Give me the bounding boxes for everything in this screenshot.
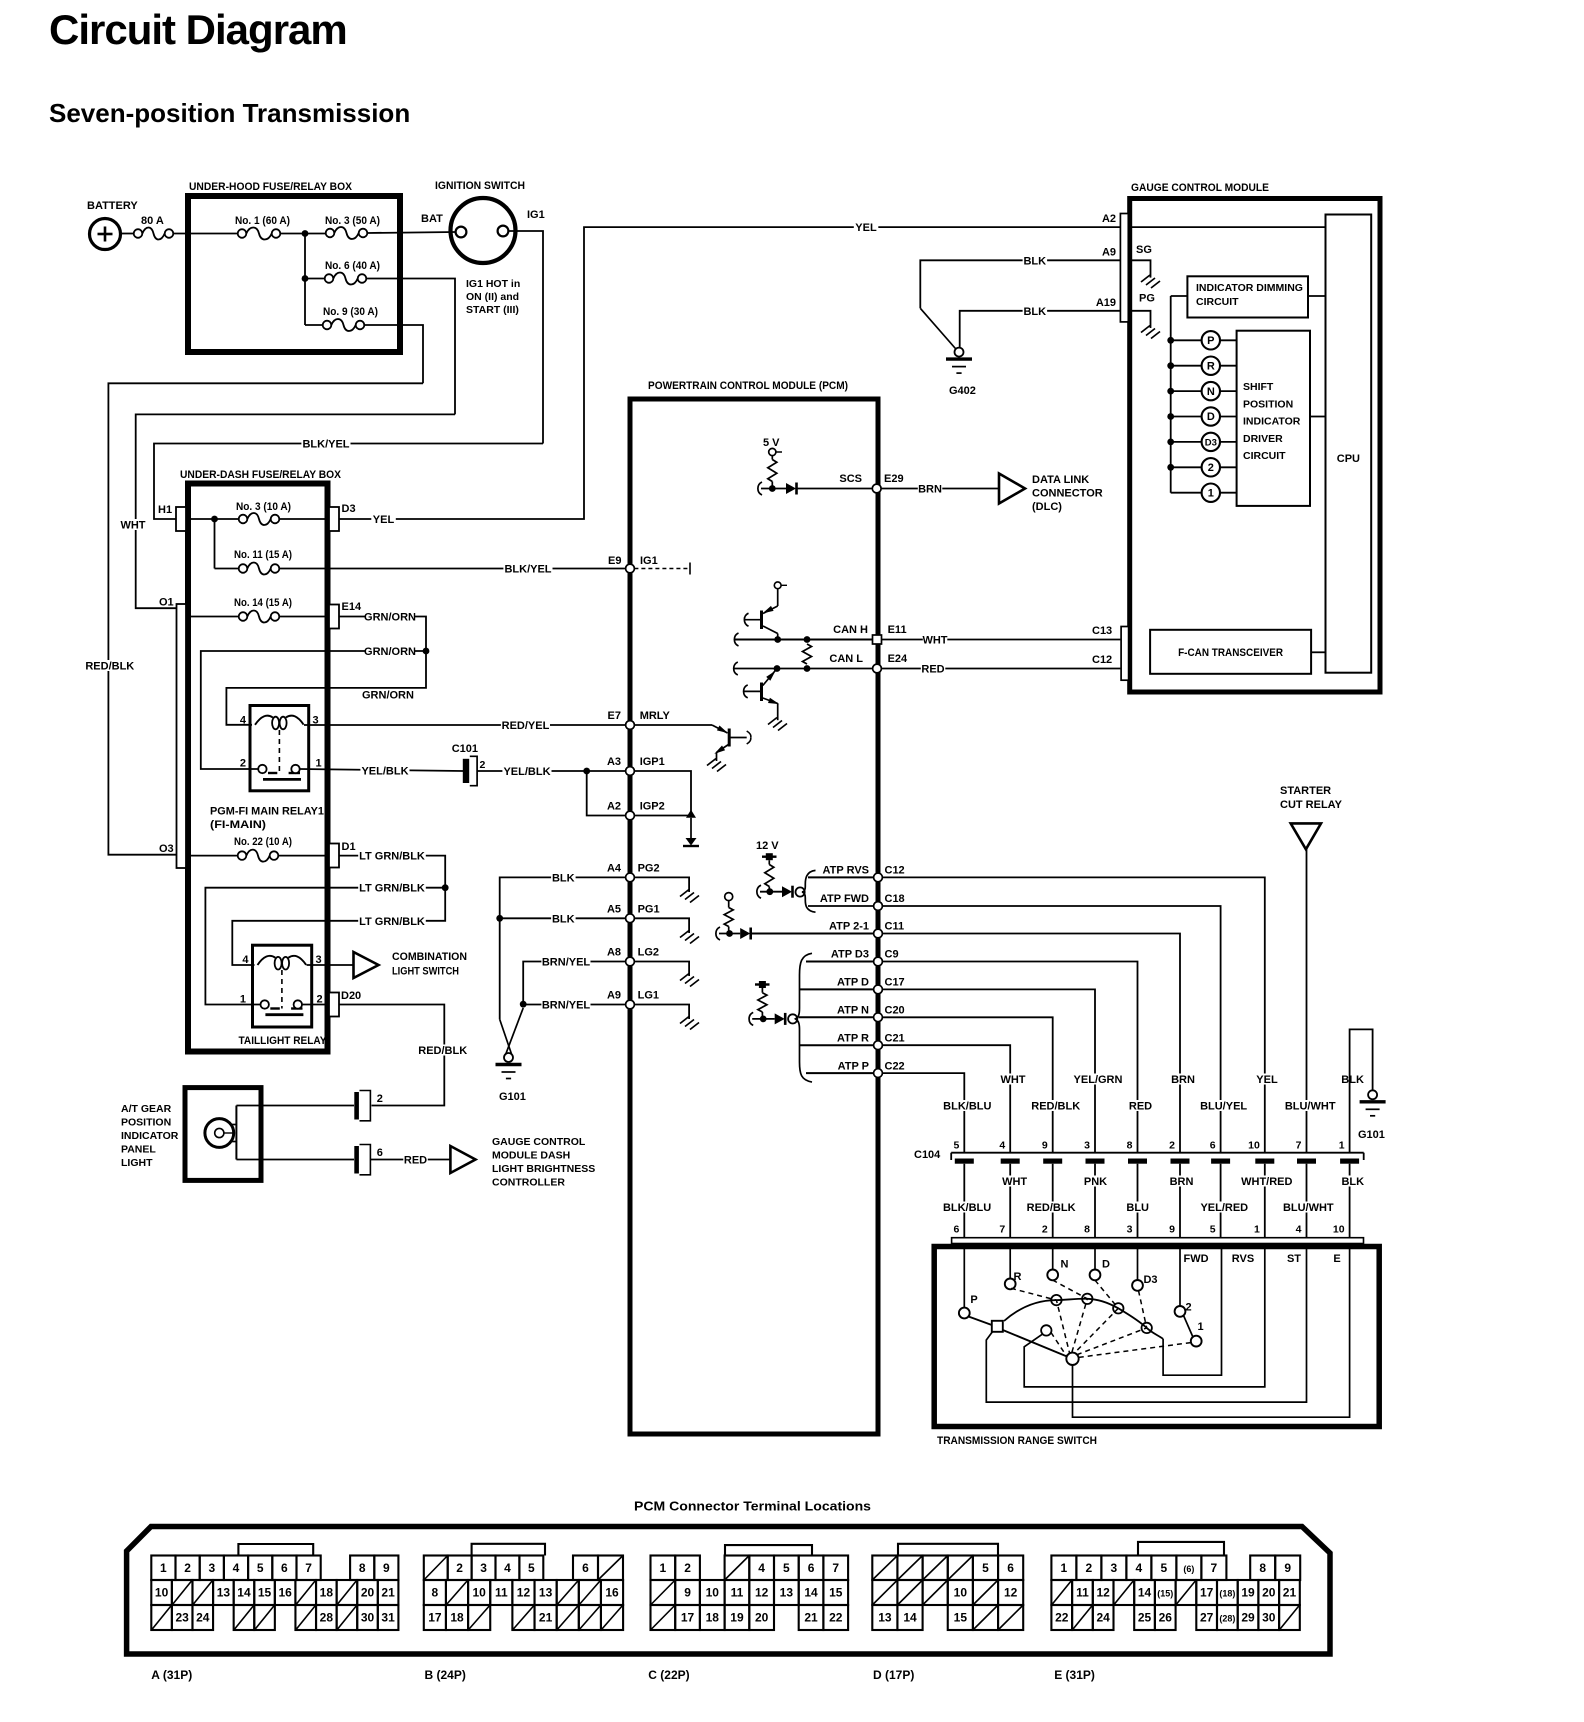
- pcm pin C22: [874, 1069, 883, 1078]
- wire BLK/YEL fuse No.11 to E9: [279, 568, 627, 570]
- connector B row1 cell 4: [519, 1556, 543, 1581]
- connector pin E14: [329, 605, 339, 629]
- svg-text:15: 15: [829, 1586, 843, 1600]
- wire battery to 80A fuse: [121, 233, 134, 235]
- connector B row2 cell 5: [535, 1580, 557, 1605]
- svg-text:2: 2: [480, 759, 486, 771]
- svg-text:E: E: [1333, 1253, 1340, 1265]
- wire IGP2 internal: [634, 815, 691, 817]
- svg-text:22: 22: [1055, 1611, 1069, 1625]
- svg-text:No. 3 (10 A): No. 3 (10 A): [236, 501, 291, 513]
- pcm pin C9: [874, 957, 883, 966]
- svg-text:LIGHT: LIGHT: [121, 1157, 153, 1169]
- svg-text:ST: ST: [1287, 1253, 1301, 1265]
- svg-text:16: 16: [278, 1586, 292, 1600]
- svg-text:9: 9: [684, 1586, 691, 1600]
- fuse No. 3 (10 A): [239, 515, 248, 524]
- connector C row1 cell 4: [749, 1556, 774, 1581]
- svg-text:BATTERY: BATTERY: [87, 200, 138, 212]
- connector A row3 cell 11: [378, 1605, 399, 1630]
- label BRN/YEL A8: [541, 956, 590, 967]
- terminal circle ATP D3: [788, 1014, 797, 1023]
- svg-text:No. 6 (40 A): No. 6 (40 A): [325, 260, 380, 272]
- svg-text:8: 8: [359, 1561, 366, 1575]
- C104 pin 2 terminal: [1171, 1159, 1190, 1164]
- connector A row1 cell 9: [374, 1556, 398, 1581]
- connector A row3 cell 7: [295, 1605, 316, 1630]
- svg-text:C20: C20: [885, 1005, 905, 1017]
- svg-text:YEL: YEL: [1256, 1074, 1278, 1086]
- node ATP RVS junction: [766, 888, 773, 895]
- symbol data link connector triangle: [999, 474, 1025, 504]
- svg-text:IGP1: IGP1: [640, 756, 665, 768]
- connector C row3 cell 6: [799, 1605, 824, 1630]
- connector A row1 cell 6: [272, 1556, 296, 1581]
- terminal circle ATP 2-1 supply: [725, 893, 733, 901]
- wire C22/ATP P to C104: [883, 1073, 965, 1153]
- svg-text:ATP RVS: ATP RVS: [823, 865, 869, 877]
- connector E row3 cell 2: [1093, 1605, 1114, 1630]
- svg-text:C13: C13: [1092, 625, 1112, 637]
- svg-text:3: 3: [1111, 1561, 1118, 1575]
- svg-text:1: 1: [1061, 1561, 1068, 1575]
- symbol starter cut relay triangle: [1291, 823, 1321, 849]
- svg-text:7: 7: [305, 1561, 312, 1575]
- svg-text:LG1: LG1: [638, 990, 659, 1002]
- wire indicator N right: [1220, 390, 1237, 392]
- ground G101 right: [1368, 1090, 1377, 1099]
- ground G101 left: [504, 1053, 513, 1062]
- svg-text:E24: E24: [888, 653, 908, 665]
- connector A row1 cell 5: [248, 1556, 272, 1581]
- wire C104 to TRS pin 8: [1094, 1164, 1096, 1238]
- wire A2 to CPU: [1128, 226, 1325, 228]
- inner contact D3: [1142, 1323, 1152, 1333]
- svg-text:RED/BLK: RED/BLK: [85, 660, 134, 672]
- svg-text:COMBINATION: COMBINATION: [392, 951, 467, 963]
- wire WHT vertical to O1: [136, 414, 455, 608]
- label BLK/YEL to E9: [503, 563, 552, 574]
- svg-text:CAN H: CAN H: [833, 624, 868, 636]
- wire C104 to TRS pin 2: [1052, 1164, 1054, 1238]
- connector A row2 cell 4: [234, 1580, 255, 1605]
- svg-text:1: 1: [160, 1561, 167, 1575]
- wire C18/ATP FWD to C104: [883, 906, 1221, 1153]
- svg-text:No. 11 (15 A): No. 11 (15 A): [234, 549, 292, 561]
- connector A row2 cell 10: [357, 1580, 378, 1605]
- svg-text:D: D: [1207, 411, 1215, 423]
- svg-text:UNDER-DASH FUSE/RELAY BOX: UNDER-DASH FUSE/RELAY BOX: [180, 469, 342, 481]
- pcm pin E24: [873, 664, 882, 673]
- connector E row1 cell 2: [1101, 1556, 1126, 1581]
- svg-text:1: 1: [1197, 1321, 1203, 1333]
- svg-text:5: 5: [982, 1561, 989, 1575]
- connector C row2 cell 0: [651, 1580, 676, 1605]
- wire ATP RVS to C12: [808, 876, 873, 878]
- svg-text:17: 17: [428, 1611, 442, 1625]
- svg-text:LG2: LG2: [638, 947, 659, 959]
- wire SCS to E29: [797, 488, 874, 490]
- wire TRS pin3 to D3 contact: [1137, 1244, 1139, 1281]
- connector C row1 cell 1: [675, 1556, 700, 1581]
- svg-text:24: 24: [1096, 1611, 1110, 1625]
- svg-text:G402: G402: [949, 385, 976, 397]
- resistor ATP 2-1: [728, 901, 730, 908]
- connector B row2 cell 1: [446, 1580, 468, 1605]
- wire contact 2 to 1: [1184, 1316, 1193, 1337]
- connector B row1 cell slash: [598, 1556, 623, 1581]
- wire fcan to CPU: [1311, 651, 1325, 653]
- wire ATP D3 to C9: [806, 961, 873, 963]
- contact 1: [1191, 1336, 1202, 1347]
- wire indicator 2 left: [1171, 466, 1202, 468]
- svg-text:25: 25: [1138, 1611, 1152, 1625]
- wire CAN H line: [735, 639, 874, 641]
- relay TAILLIGHT RELAY box: [253, 945, 312, 1027]
- wire pin3 to combination light switch: [307, 964, 354, 966]
- wire indicator D right: [1220, 416, 1237, 418]
- svg-text:TAILLIGHT RELAY: TAILLIGHT RELAY: [239, 1035, 328, 1047]
- wire BLK down to G101: [499, 918, 501, 1019]
- connector E row3 cell 8: [1217, 1605, 1238, 1630]
- wire junction to fuse No.9: [305, 324, 323, 326]
- connector B row3 cell 5: [535, 1605, 557, 1630]
- pcm pin A3: [626, 767, 635, 776]
- connector C row3 cell 1: [675, 1605, 700, 1630]
- svg-text:12: 12: [517, 1586, 531, 1600]
- wire GRN/ORN to relay pin 4: [226, 651, 426, 725]
- svg-text:4: 4: [242, 954, 249, 966]
- svg-text:1: 1: [1339, 1140, 1345, 1152]
- node junction at fuse No.3(10A): [211, 516, 218, 523]
- fuse 80 A: [134, 229, 143, 238]
- wire indicator P left: [1171, 339, 1202, 341]
- svg-text:27: 27: [1200, 1611, 1214, 1625]
- connector C row3 cell 7: [823, 1605, 848, 1630]
- label PNK trs: [1083, 1176, 1108, 1187]
- dashed ray D: [1075, 1280, 1119, 1353]
- fuse No. 9 (30 A): [323, 321, 332, 330]
- svg-text:BAT: BAT: [421, 213, 443, 225]
- connector A row1 cell 8: [350, 1556, 374, 1581]
- resistor ATP D3: [761, 988, 763, 993]
- relay PGM-FI MAIN RELAY1 box: [250, 706, 309, 791]
- connector D row3 cell 0: [872, 1605, 897, 1630]
- svg-text:No. 22 (10 A): No. 22 (10 A): [234, 836, 292, 848]
- svg-text:30: 30: [361, 1611, 375, 1625]
- wire fuse No.6 output: [366, 279, 455, 415]
- connector B row3 cell 6: [557, 1605, 579, 1630]
- connector E row3 cell 11: [1279, 1605, 1300, 1630]
- svg-text:RED/YEL: RED/YEL: [502, 720, 550, 732]
- connector E row3 cell 1: [1072, 1605, 1093, 1630]
- svg-text:BRN: BRN: [1171, 1074, 1195, 1086]
- label WHT c104: [1001, 1074, 1026, 1085]
- connector B row3 cell 7: [579, 1605, 601, 1630]
- symbol brightness controller triangle: [450, 1146, 475, 1173]
- connector E row3 cell 10: [1258, 1605, 1279, 1630]
- svg-text:CONTROLLER: CONTROLLER: [492, 1177, 565, 1189]
- connector C101: [463, 759, 469, 783]
- svg-text:C9: C9: [885, 949, 899, 961]
- svg-text:BLK: BLK: [552, 913, 575, 925]
- svg-text:1: 1: [316, 758, 322, 770]
- C104 connector bar: [951, 1152, 1363, 1154]
- connector B row2 cell 2: [468, 1580, 490, 1605]
- node junction YEL/BLK: [583, 768, 590, 775]
- under-hood fuse/relay box: [188, 196, 400, 352]
- svg-text:PG1: PG1: [638, 903, 660, 915]
- connector terminal 2: [354, 1092, 359, 1120]
- svg-text:10: 10: [155, 1586, 169, 1600]
- transistor Q1 CAN H: [760, 611, 763, 630]
- connector E row2 cell 6: [1176, 1580, 1197, 1605]
- svg-text:C17: C17: [885, 977, 905, 989]
- wire indicator 1 left: [1171, 492, 1202, 494]
- svg-text:15: 15: [954, 1611, 968, 1625]
- connector E row2 cell 4: [1134, 1580, 1155, 1605]
- connector D row2 cell 1: [897, 1580, 922, 1605]
- svg-text:PNK: PNK: [1084, 1176, 1107, 1188]
- connector D row2 cell 4: [973, 1580, 998, 1605]
- taillight relay contact pin 1: [261, 1000, 269, 1008]
- connector E row2 cell 3: [1114, 1580, 1135, 1605]
- svg-text:H1: H1: [158, 504, 172, 516]
- indicator circle D3: [1202, 433, 1220, 451]
- wire indicator R left: [1171, 365, 1202, 367]
- connector B row1 cell 1: [448, 1556, 472, 1581]
- svg-text:(28): (28): [1219, 1614, 1235, 1624]
- svg-text:D3: D3: [342, 503, 356, 515]
- wire indicator D left: [1171, 416, 1202, 418]
- svg-text:2: 2: [1042, 1224, 1048, 1236]
- svg-text:5: 5: [257, 1561, 264, 1575]
- connector C row2 cell 4: [749, 1580, 774, 1605]
- svg-text:IG1 HOT in: IG1 HOT in: [466, 278, 520, 290]
- contact R: [1005, 1279, 1016, 1290]
- dashed ray 1: [1079, 1343, 1191, 1358]
- svg-text:BRN: BRN: [918, 483, 942, 495]
- svg-text:INDICATOR: INDICATOR: [121, 1130, 179, 1142]
- svg-text:LT GRN/BLK: LT GRN/BLK: [359, 916, 425, 928]
- svg-text:6: 6: [808, 1561, 815, 1575]
- svg-text:GAUGE CONTROL MODULE: GAUGE CONTROL MODULE: [1131, 182, 1269, 194]
- connector B row1 cell 3: [496, 1556, 520, 1581]
- wire TRS pin7 to R contact: [1009, 1244, 1011, 1279]
- connector A row1 cell 3: [200, 1556, 224, 1581]
- label GRN/ORN 2: [365, 646, 414, 657]
- svg-text:POSITION: POSITION: [121, 1117, 171, 1129]
- svg-text:2: 2: [240, 758, 246, 770]
- label WHT trs: [1002, 1176, 1027, 1187]
- connector E row1 cell 3: [1126, 1556, 1151, 1581]
- svg-text:4: 4: [1136, 1561, 1143, 1575]
- wire pin2 to D20: [302, 1004, 329, 1006]
- connector A row2 cell 5: [254, 1580, 275, 1605]
- connector C row3 cell 0: [651, 1605, 676, 1630]
- connector A row2 cell 8: [316, 1580, 337, 1605]
- svg-text:21: 21: [539, 1611, 553, 1625]
- cpu box: [1326, 215, 1372, 673]
- connector D row2 cell 5: [998, 1580, 1023, 1605]
- wire indicator P right: [1220, 339, 1237, 341]
- svg-text:17: 17: [1200, 1586, 1214, 1600]
- ground hatch PG gauge: [1141, 326, 1150, 333]
- label RED/BLK c104: [1031, 1100, 1080, 1111]
- svg-text:3: 3: [1084, 1140, 1090, 1152]
- wire TRS pin5 FWD route: [1163, 1244, 1221, 1376]
- svg-text:18: 18: [450, 1611, 464, 1625]
- svg-text:2: 2: [684, 1561, 691, 1575]
- svg-text:Seven-position Transmission: Seven-position Transmission: [49, 98, 410, 128]
- svg-text:6: 6: [953, 1224, 959, 1236]
- svg-text:YEL: YEL: [373, 514, 395, 526]
- gauge control module box: [1130, 199, 1380, 693]
- connector B row2 cell 3: [490, 1580, 512, 1605]
- wire PG1 internal ground: [634, 918, 689, 933]
- curl SCS line end: [758, 482, 762, 495]
- connector terminal 6: [354, 1146, 359, 1174]
- connector D row2 cell 2: [923, 1580, 948, 1605]
- wire junction down to No.9: [304, 279, 306, 326]
- svg-text:3: 3: [1127, 1224, 1133, 1236]
- connector A row3 cell 4: [234, 1605, 255, 1630]
- svg-text:2: 2: [1086, 1561, 1093, 1575]
- svg-text:A9: A9: [607, 990, 621, 1002]
- svg-text:O3: O3: [159, 843, 174, 855]
- svg-text:START (III): START (III): [466, 304, 519, 316]
- svg-text:P: P: [970, 1294, 977, 1306]
- connector B bracket: [472, 1544, 545, 1556]
- taillight relay moving contact stubs: [270, 1007, 280, 1009]
- svg-text:E7: E7: [608, 710, 621, 722]
- svg-text:9: 9: [1169, 1224, 1175, 1236]
- wire ATP P to C22: [806, 1072, 873, 1074]
- node CAN L resistor junction: [804, 665, 811, 672]
- svg-text:D (17P): D (17P): [873, 1668, 914, 1682]
- svg-text:IG1: IG1: [640, 555, 658, 567]
- svg-text:LT GRN/BLK: LT GRN/BLK: [359, 851, 425, 863]
- svg-text:(15): (15): [1157, 1589, 1173, 1599]
- wire IG1 stub inside PCM: [634, 568, 690, 570]
- svg-text:11: 11: [1076, 1586, 1089, 1600]
- connector C row1 cell 7: [823, 1556, 848, 1581]
- wire bus to fuse No.22: [186, 855, 238, 857]
- svg-text:D3: D3: [1205, 438, 1217, 449]
- connector B row1 cell 2: [472, 1556, 496, 1581]
- resistor ATP RVS: [768, 860, 770, 864]
- pcm pin A2 IGP2: [626, 811, 635, 820]
- svg-text:LIGHT SWITCH: LIGHT SWITCH: [392, 966, 459, 978]
- svg-text:2: 2: [1185, 1302, 1191, 1314]
- C104 pin 9 terminal: [1043, 1159, 1062, 1164]
- svg-text:80 A: 80 A: [141, 215, 164, 227]
- node BRN/YEL junction: [520, 1001, 527, 1008]
- indicator bus vertical: [1170, 296, 1172, 493]
- svg-text:BLK: BLK: [1023, 306, 1046, 318]
- taillight relay contact bar: [265, 1013, 303, 1016]
- 5V supply: [769, 448, 776, 455]
- wire WHT CAN H to C13: [881, 639, 1120, 641]
- svg-text:10: 10: [706, 1586, 720, 1600]
- wire C9/ATP D3 to C104: [883, 962, 1138, 1153]
- label RED/BLK trs: [1027, 1202, 1076, 1213]
- svg-text:D1: D1: [342, 841, 356, 853]
- connector C row1 cell 0: [651, 1556, 676, 1581]
- bracket ATP D3-P: [796, 953, 813, 1082]
- svg-text:CIRCUIT: CIRCUIT: [1196, 296, 1239, 308]
- curl ATP D3 end: [749, 1012, 753, 1025]
- node indicator bus 2: [1167, 464, 1174, 471]
- svg-text:8: 8: [1259, 1561, 1266, 1575]
- svg-text:(18): (18): [1219, 1589, 1235, 1599]
- connector D row2 cell 3: [948, 1580, 973, 1605]
- svg-text:C101: C101: [452, 743, 478, 755]
- connector E row3 cell 7: [1196, 1605, 1217, 1630]
- svg-text:RED/BLK: RED/BLK: [418, 1045, 467, 1057]
- connector D row3 cell 4: [973, 1605, 998, 1630]
- connector D row1 cell 0: [872, 1556, 897, 1581]
- wire BRN/YEL from A8: [523, 962, 625, 1005]
- wire fuse No.3 to D3 pin: [279, 518, 329, 520]
- connector C row2 cell 2: [700, 1580, 725, 1605]
- connector C row2 cell 5: [774, 1580, 799, 1605]
- svg-text:29: 29: [1241, 1611, 1255, 1625]
- svg-text:BLK/YEL: BLK/YEL: [302, 438, 349, 450]
- svg-text:No. 9 (30 A): No. 9 (30 A): [323, 306, 378, 318]
- svg-text:19: 19: [1241, 1586, 1255, 1600]
- svg-text:A5: A5: [607, 903, 621, 915]
- svg-text:Circuit Diagram: Circuit Diagram: [49, 6, 347, 53]
- C104 pin 4 terminal: [1001, 1159, 1020, 1164]
- rotor center contact: [1066, 1353, 1078, 1365]
- fuse No. 11 (15 A): [239, 564, 248, 573]
- connector B row1 cell 0: [424, 1556, 448, 1581]
- svg-text:9: 9: [1042, 1140, 1048, 1152]
- svg-text:RED/BLK: RED/BLK: [1027, 1202, 1076, 1214]
- connector E row2 cell 9: [1238, 1580, 1259, 1605]
- C104 pin 5 terminal: [955, 1159, 974, 1164]
- pcm pin C17: [874, 985, 883, 994]
- svg-text:GRN/ORN: GRN/ORN: [362, 690, 414, 702]
- wire 80A fuse to under-hood box: [173, 233, 239, 235]
- wire junction to fuse No.11: [215, 568, 239, 570]
- wire fuse No.1 to junction: [280, 233, 326, 235]
- label YEL top wire: [854, 222, 879, 233]
- node indicator bus N: [1167, 388, 1174, 395]
- svg-text:No. 3 (50 A): No. 3 (50 A): [325, 215, 380, 227]
- indicator circle P: [1202, 331, 1220, 349]
- wire MRLY to transistor: [634, 724, 712, 726]
- svg-text:A19: A19: [1096, 297, 1116, 309]
- svg-text:4: 4: [240, 715, 247, 727]
- contact square: [992, 1321, 1003, 1332]
- wire RED/BLK D20 to panel light connector: [339, 1005, 444, 1106]
- wire LT GRN/BLK from D1: [339, 856, 445, 888]
- connector A row3 cell 8: [316, 1605, 337, 1630]
- label WHT/RED trs: [1242, 1176, 1291, 1187]
- label BLK A19: [1023, 305, 1048, 316]
- wire junction down to fuse No.11: [214, 519, 216, 569]
- C104 pin 10 terminal: [1255, 1159, 1274, 1164]
- wire IGP1 internal: [634, 771, 691, 816]
- svg-text:2: 2: [456, 1561, 463, 1575]
- svg-text:8: 8: [1127, 1140, 1133, 1152]
- svg-text:23: 23: [176, 1611, 190, 1625]
- svg-text:CAN L: CAN L: [829, 653, 863, 665]
- contact P: [959, 1308, 970, 1319]
- connector B row2 cell 6: [557, 1580, 579, 1605]
